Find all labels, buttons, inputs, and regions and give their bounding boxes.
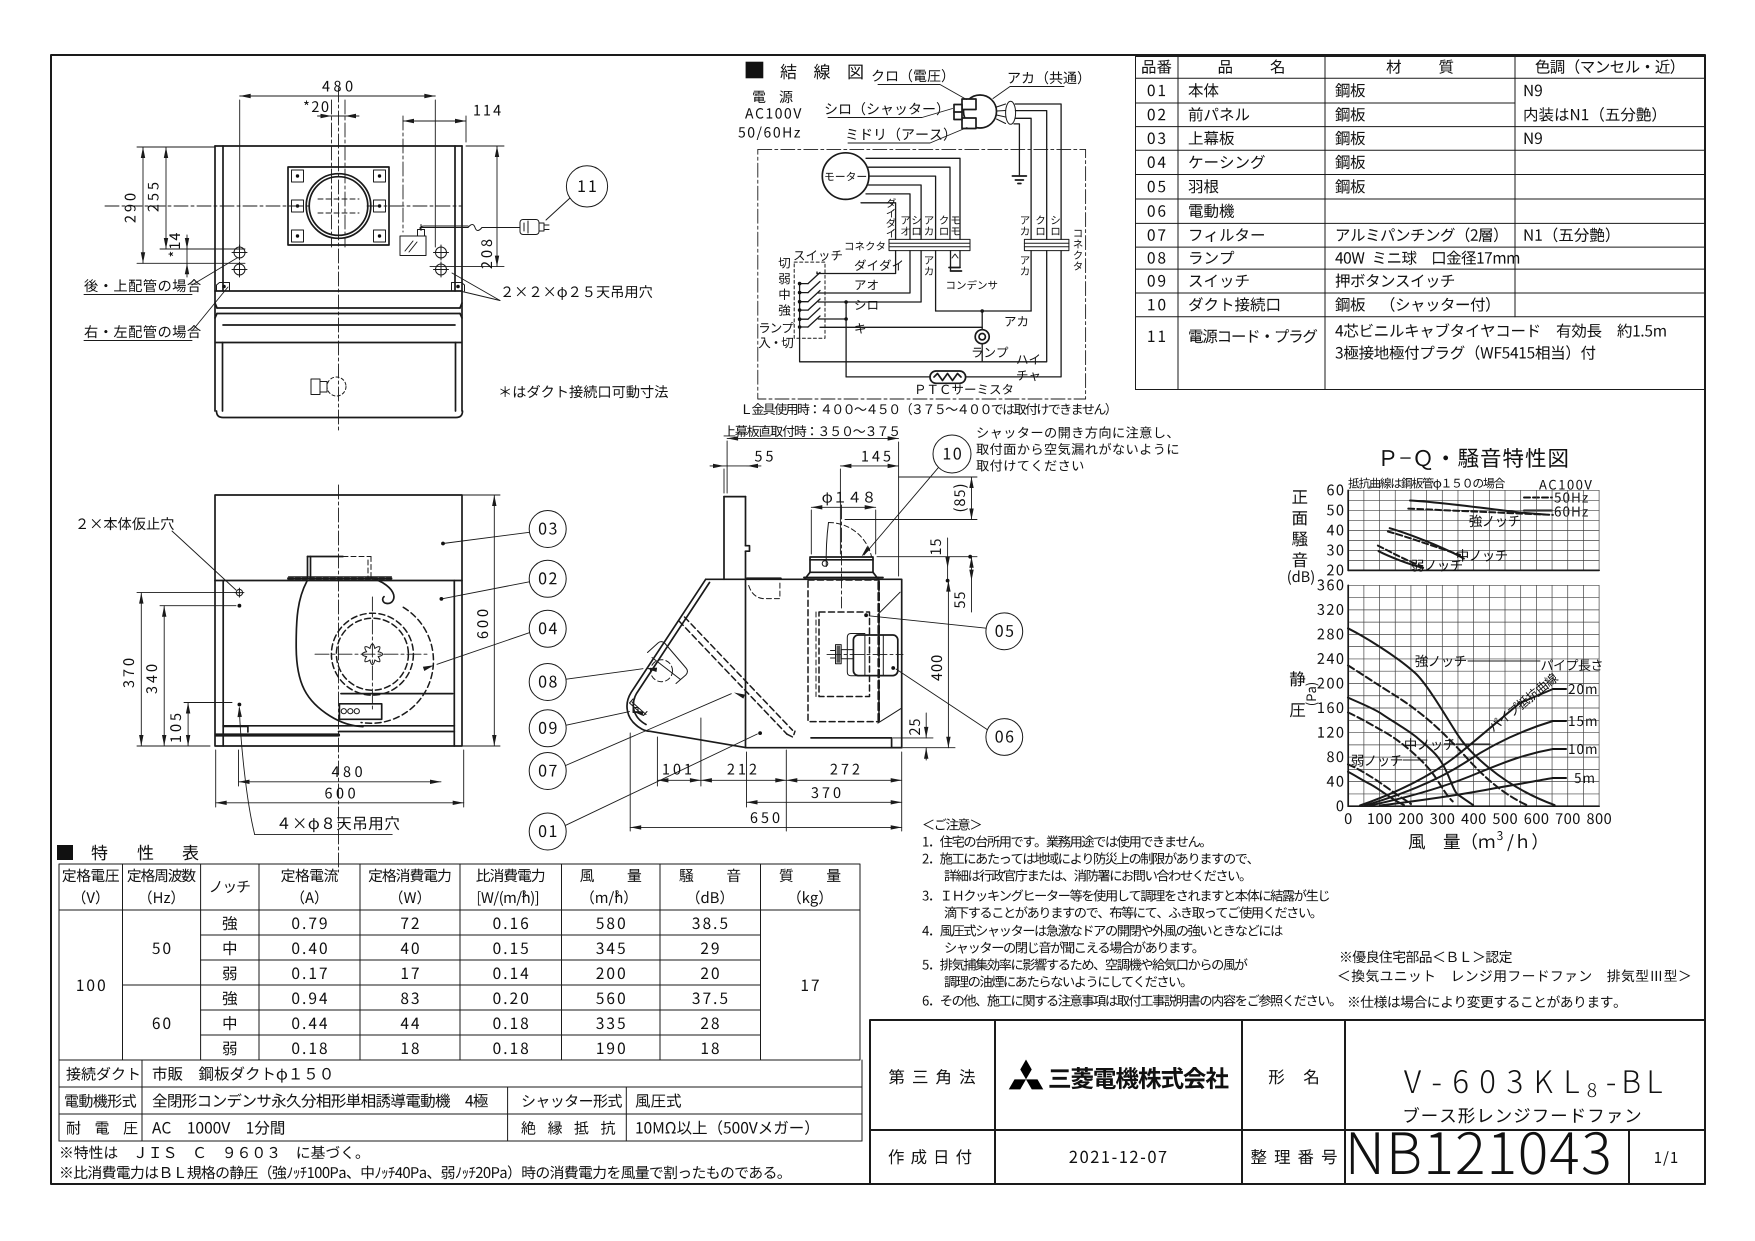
- callout circles 08 09 07 01: [529, 664, 566, 851]
- label siro(shutter): [826, 102, 941, 115]
- CN1 wire labels (vertical): [886, 198, 895, 208]
- lamp symbol (top view, hidden): [311, 379, 327, 395]
- dim 114: [403, 116, 466, 232]
- dim 55 top: [710, 464, 761, 493]
- model number: [1404, 1070, 1579, 1093]
- dim 290 / 255 / *14 (left): [137, 147, 245, 277]
- callout circles 03 02 04: [529, 511, 566, 648]
- side view: top plate: [724, 497, 750, 748]
- dim 208: [430, 146, 504, 267]
- spec table headers: [62, 869, 119, 883]
- dim 400: [903, 581, 955, 748]
- wire from daidai contact: [816, 272, 818, 274]
- lamp: [975, 330, 989, 344]
- fan scroll (front view): [296, 578, 394, 727]
- unit enclosure (dash-dot): [758, 149, 1086, 399]
- top chart curve labels: [1469, 515, 1520, 528]
- power source label: [753, 90, 792, 103]
- dim 25: [893, 713, 933, 760]
- label kuro(voltage): [872, 69, 945, 82]
- top noise chart grid: [1348, 490, 1599, 570]
- PTC thermistor: [846, 251, 1061, 377]
- model name label: [1269, 1069, 1318, 1084]
- axis label static pressure: [1290, 671, 1305, 686]
- wire: cord red (aka) to CN2: [1015, 118, 1031, 239]
- label aka(common): [1009, 71, 1082, 84]
- duct connection (10) side view: [804, 557, 883, 578]
- side view: body outline: [627, 579, 902, 748]
- x axis label: [1409, 833, 1495, 850]
- dim phi148: [811, 505, 875, 554]
- pipe resistance curves: [1360, 689, 1553, 806]
- centerlines top view: [105, 88, 462, 432]
- front view dims left (370/340/105): [137, 593, 236, 746]
- parts list table: [1136, 57, 1706, 390]
- callout circle 11: [546, 166, 608, 220]
- label midori(earth): [847, 127, 947, 140]
- legend 50Hz/60Hz: [1524, 497, 1552, 499]
- front view outline: [215, 495, 462, 746]
- fan hub: [362, 644, 383, 665]
- note: duct movable: [500, 385, 668, 398]
- label 4x phi8 holes: [279, 816, 399, 832]
- side view bottom dims: [630, 718, 902, 831]
- wire aka horizontal (lamp feed): [936, 251, 1032, 311]
- wire siro below CN1 to switch: [818, 251, 921, 302]
- lamp on slope (08): [648, 642, 688, 684]
- plug (11): [520, 220, 549, 235]
- spec table data: [77, 979, 105, 991]
- duct opening circles: [306, 174, 371, 239]
- duct collar (front view): [308, 557, 344, 578]
- shutter caution note: [977, 426, 1170, 438]
- Mitsubishi logo: [1009, 1060, 1044, 1090]
- spec notes: [61, 1146, 360, 1160]
- fan curves 60Hz solid: [1348, 628, 1555, 805]
- top view: hood body outline: [215, 146, 463, 418]
- dim (85): [845, 477, 977, 520]
- hanging holes (2x2 phi25): [232, 245, 449, 277]
- lamp socket / switch bracket (09): [630, 699, 648, 716]
- company name: [1049, 1067, 1228, 1089]
- title block frame: [870, 1020, 1705, 1184]
- connector CN1: [889, 239, 970, 250]
- wire ki from switch to PTC branch: [818, 318, 846, 320]
- axis label front noise dB: [1292, 490, 1307, 503]
- switch labels: [779, 257, 790, 268]
- front bottom lines: [223, 726, 454, 732]
- bottom chart grid: [1348, 585, 1599, 806]
- dim 55 right: [969, 557, 973, 612]
- wire: cord green (midori) to ground: [1014, 124, 1019, 176]
- spec table: [59, 864, 862, 1141]
- fan curves 50Hz dashed: [1348, 665, 1527, 805]
- bottom chart x labels: [1345, 813, 1352, 824]
- pipe curve labels: [1541, 659, 1601, 671]
- mounting height notes: [744, 403, 1109, 415]
- dim *20: [318, 114, 360, 118]
- junction dots on siro/ki vertical: [845, 302, 847, 377]
- parts table row 11: [1148, 331, 1165, 342]
- top chart curves: [1379, 501, 1545, 568]
- front view dims bottom 480/600: [216, 750, 464, 807]
- chart note and AC100V: [1348, 478, 1505, 490]
- capacitor C: [951, 251, 961, 271]
- side view: bottom step: [811, 738, 902, 748]
- wire: switch common rail to bottom: [800, 251, 1047, 362]
- switch box with buttons (front view): [339, 694, 452, 720]
- spec table title: [57, 845, 73, 860]
- dim 145: [840, 464, 898, 554]
- plug: [954, 95, 997, 129]
- date row: [889, 1149, 972, 1164]
- label: right/left piping: [84, 325, 200, 338]
- top chart y labels: [1327, 484, 1343, 495]
- temp fixing holes: [235, 588, 244, 597]
- callout 05: [986, 613, 1023, 650]
- motor (06) side view: [853, 635, 897, 676]
- wire aka below CN1 to lamp line: [935, 251, 937, 311]
- ground: [1012, 176, 1026, 184]
- filter dashed diagonal (07): [679, 617, 795, 737]
- fan casing dashed (side view): [808, 580, 879, 722]
- parts table rows: [1148, 85, 1165, 97]
- label: 2x2 phi25 holes: [503, 285, 652, 300]
- callout 10: [933, 435, 971, 473]
- wire: cord black (kuro) to CN2: [1015, 111, 1046, 240]
- wire: cord white (siro) to CN2: [1015, 104, 1061, 239]
- wire: lamp switch output: [820, 326, 982, 328]
- power cord and clamp: [400, 225, 520, 256]
- parts table header: [1142, 60, 1171, 74]
- motor M: [822, 153, 869, 200]
- bottom chart y labels: [1317, 579, 1343, 590]
- front view dim 600 right: [462, 495, 500, 746]
- centerlines side view: [827, 505, 903, 655]
- duct flange plate with bolt squares: [288, 167, 389, 245]
- cord bundle ellipse: [997, 101, 1016, 124]
- push switch SW: [794, 262, 825, 338]
- wiring title: [746, 62, 764, 79]
- motor wires to CN1: [861, 158, 960, 239]
- label 2x temp holes: [78, 517, 174, 530]
- BL certification note: [1341, 950, 1512, 963]
- converging panels: [878, 592, 901, 723]
- mounting brackets: [217, 283, 465, 292]
- dim 480 (top): [240, 94, 436, 247]
- labels hai/cha: [1017, 354, 1039, 364]
- P-Q chart title: [1382, 448, 1567, 470]
- connector CN2: [1024, 239, 1069, 250]
- wire ao below CN1 to switch: [818, 251, 910, 293]
- label: rear/top piping: [84, 279, 200, 292]
- dim 15: [877, 538, 977, 581]
- centerlines front view: [315, 485, 430, 872]
- side view top dims: [727, 436, 899, 576]
- CN2 wire labels: [1021, 216, 1030, 224]
- bottom chart curve labels: [1415, 655, 1466, 668]
- spec lower rows: [66, 1067, 138, 1081]
- callout 06: [986, 719, 1023, 756]
- caution notes: [923, 818, 981, 830]
- product name: [1405, 1107, 1641, 1124]
- wire daidai below CN1 to switch: [817, 251, 896, 274]
- third angle projection label: [889, 1069, 975, 1084]
